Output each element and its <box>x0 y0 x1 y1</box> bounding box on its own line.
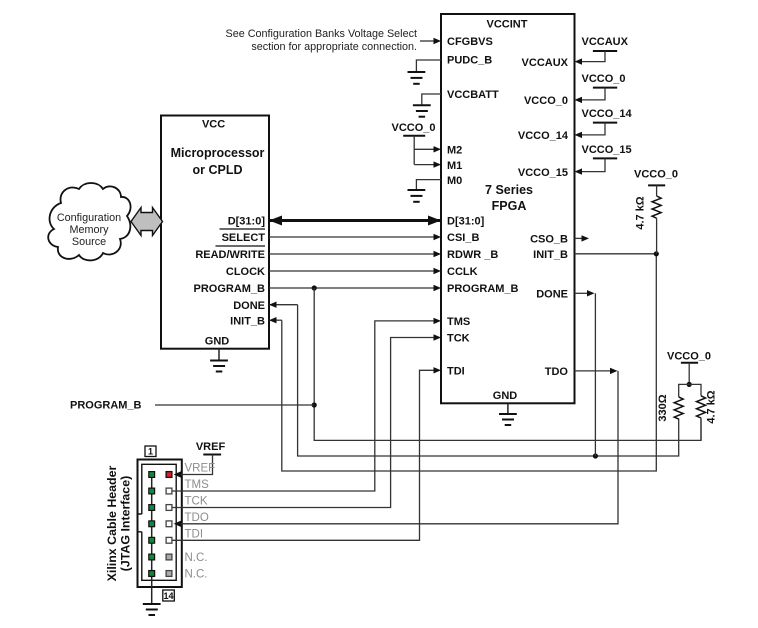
wire PUDC_B to ground <box>416 60 441 72</box>
wire divider top bar <box>679 384 701 397</box>
power VREF <box>174 441 226 478</box>
ground M0 <box>408 190 426 202</box>
resistor R1 4.7 kOhm <box>635 196 662 254</box>
header pin NC1 <box>166 554 172 560</box>
svg-text:CSO_B: CSO_B <box>530 234 568 246</box>
wire TDI net <box>172 367 441 540</box>
svg-text:VCCO_14: VCCO_14 <box>582 108 633 120</box>
junction PROGRAM_B <box>312 285 317 290</box>
svg-text:VREF: VREF <box>185 463 216 475</box>
microprocessor box <box>161 116 269 349</box>
pin 1 label box <box>145 446 156 457</box>
wire CLOCK to CCLK <box>269 268 441 274</box>
svg-text:TDO: TDO <box>545 366 569 378</box>
power VCCO_15 <box>575 144 632 175</box>
wire PROGRAM_B label line <box>155 404 314 406</box>
svg-text:Configuration: Configuration <box>57 212 121 224</box>
ground JTAG header <box>143 604 161 615</box>
svg-text:PROGRAM_B: PROGRAM_B <box>70 400 142 412</box>
header pin TMS <box>166 488 172 494</box>
svg-text:14: 14 <box>163 591 173 601</box>
wire INIT_B micro stub <box>269 317 282 323</box>
resistor R3 4.7 kOhm <box>697 390 718 440</box>
power VCCAUX <box>575 36 629 65</box>
svg-text:or CPLD: or CPLD <box>193 163 243 177</box>
svg-text:PROGRAM_B: PROGRAM_B <box>447 283 519 295</box>
svg-text:CFGBVS: CFGBVS <box>447 36 493 48</box>
svg-text:VCCAUX: VCCAUX <box>582 36 629 48</box>
svg-text:CCLK: CCLK <box>447 266 478 278</box>
wire TCK net <box>172 334 441 507</box>
svg-text:SELECT: SELECT <box>222 232 266 244</box>
svg-text:GND: GND <box>205 335 230 347</box>
svg-text:M2: M2 <box>447 145 462 157</box>
ground PUDC_B <box>408 72 426 84</box>
JTAG header inner box with notch <box>138 464 176 580</box>
svg-text:DONE: DONE <box>536 289 568 301</box>
svg-text:4.7 kΩ: 4.7 kΩ <box>706 390 718 423</box>
svg-text:TCK: TCK <box>185 496 208 508</box>
gray bidirectional arrow cloud-micro <box>131 208 163 236</box>
svg-text:FPGA: FPGA <box>492 199 527 213</box>
svg-text:M1: M1 <box>447 160 462 172</box>
junction INIT_B pullup <box>654 251 659 256</box>
wire CFGBVS note arrow <box>420 38 441 44</box>
wire CSO_B stub <box>575 235 590 241</box>
svg-text:READ/WRITE: READ/WRITE <box>195 249 265 261</box>
junction DONE net <box>593 453 598 458</box>
junction resistor divider top <box>687 382 692 387</box>
svg-text:VCCO_0: VCCO_0 <box>667 351 711 363</box>
FPGA U1 box (7 Series FPGA) <box>441 14 575 403</box>
svg-text:section for appropriate connec: section for appropriate connection. <box>251 41 417 53</box>
svg-text:TCK: TCK <box>447 333 470 345</box>
overline SELECT <box>220 228 266 230</box>
wire INIT_B FPGA <box>575 253 657 255</box>
svg-text:VCCO_0: VCCO_0 <box>391 122 435 134</box>
svg-text:PUDC_B: PUDC_B <box>447 55 492 67</box>
wire PROGRAM_B vertical to pullup <box>314 288 701 440</box>
svg-text:Xilinx Cable Header: Xilinx Cable Header <box>105 465 119 581</box>
svg-text:VCCO_0: VCCO_0 <box>634 169 678 181</box>
power VCCO_14 <box>575 108 633 138</box>
svg-text:Source: Source <box>72 236 106 248</box>
svg-text:Microprocessor: Microprocessor <box>171 146 265 160</box>
ground VCCBATT <box>413 105 431 116</box>
svg-text:7 Series: 7 Series <box>485 183 533 197</box>
wire ground bus through left pins <box>151 475 153 605</box>
header pin VREF red <box>166 472 172 478</box>
svg-text:VCCO_15: VCCO_15 <box>518 167 568 179</box>
power VCCO_0 for M2 M1 <box>391 122 435 165</box>
power VCCO_0 bottom right <box>667 351 711 385</box>
svg-text:VCCO_14: VCCO_14 <box>518 130 569 142</box>
wire READ/WRITE to RDWR_B <box>269 251 441 257</box>
header pin TCK <box>166 505 172 511</box>
header pin TDO <box>166 521 172 527</box>
header pin NC2 <box>166 571 172 577</box>
svg-text:Memory: Memory <box>70 224 110 236</box>
power VCCO_0 top right pullup <box>634 169 678 197</box>
header title rotated <box>105 465 133 581</box>
svg-text:CLOCK: CLOCK <box>226 266 265 278</box>
wire DONE FPGA stub <box>575 290 596 456</box>
resistor R2 330 Ohm <box>657 394 683 421</box>
pin 14 label box <box>163 590 175 601</box>
svg-text:D[31:0]: D[31:0] <box>228 216 266 228</box>
svg-text:VREF: VREF <box>196 441 226 453</box>
overline WRITE <box>216 245 266 247</box>
svg-text:TMS: TMS <box>185 479 210 491</box>
svg-text:M0: M0 <box>447 175 462 187</box>
svg-text:TDI: TDI <box>185 529 204 541</box>
svg-text:(JTAG Interface): (JTAG Interface) <box>119 476 133 571</box>
bus D[31:0] micro-FPGA <box>269 216 441 226</box>
header pin TDI <box>166 537 172 543</box>
note: See Configuration Banks Voltage Select <box>226 28 417 53</box>
svg-text:CSI_B: CSI_B <box>447 232 479 244</box>
svg-text:VCCO_15: VCCO_15 <box>582 144 632 156</box>
svg-text:VCC: VCC <box>202 119 225 131</box>
svg-text:GND: GND <box>493 390 518 402</box>
svg-text:INIT_B: INIT_B <box>230 315 265 327</box>
svg-text:D[31:0]: D[31:0] <box>447 216 485 228</box>
power VCCO_0 right <box>575 73 626 103</box>
ground microprocessor GND <box>210 349 228 372</box>
cloud: Configuration Memory Source <box>48 183 130 260</box>
header pins left column green <box>149 472 155 577</box>
svg-text:1: 1 <box>148 447 153 457</box>
svg-text:VCCO_0: VCCO_0 <box>524 95 568 107</box>
wire PROGRAM_B micro to FPGA <box>269 285 441 291</box>
svg-text:RDWR _B: RDWR _B <box>447 249 498 261</box>
svg-text:TMS: TMS <box>447 316 470 328</box>
svg-text:N.C.: N.C. <box>185 552 208 564</box>
wire M2 <box>414 146 441 152</box>
junction PROGRAM_B label tee <box>312 402 317 407</box>
wire SELECT to CSI_B <box>269 234 441 240</box>
wire VCCBATT to ground <box>422 94 441 105</box>
svg-text:DONE: DONE <box>233 300 265 312</box>
svg-text:VCCAUX: VCCAUX <box>522 57 569 69</box>
wire TMS net <box>172 318 441 491</box>
svg-text:INIT_B: INIT_B <box>533 249 568 261</box>
JTAG header outer box <box>138 460 182 588</box>
svg-text:VCCO_0: VCCO_0 <box>582 73 626 85</box>
wire M0 to ground <box>416 180 441 190</box>
svg-text:4.7 kΩ: 4.7 kΩ <box>635 196 647 229</box>
svg-text:VCCINT: VCCINT <box>487 19 528 31</box>
ground FPGA GND <box>499 403 517 425</box>
svg-text:See Configuration Banks Voltag: See Configuration Banks Voltage Select <box>226 28 417 40</box>
wire DONE micro stub <box>269 302 298 308</box>
wire INIT_B net <box>282 254 657 471</box>
svg-text:TDO: TDO <box>185 512 209 524</box>
svg-text:N.C.: N.C. <box>185 569 208 581</box>
svg-text:PROGRAM_B: PROGRAM_B <box>193 283 265 295</box>
wire DONE net <box>298 305 679 456</box>
svg-text:TDI: TDI <box>447 366 465 378</box>
svg-text:VCCBATT: VCCBATT <box>447 89 499 101</box>
wire TDO net <box>174 368 618 527</box>
wire M1 <box>414 161 441 167</box>
svg-text:330Ω: 330Ω <box>657 394 669 421</box>
